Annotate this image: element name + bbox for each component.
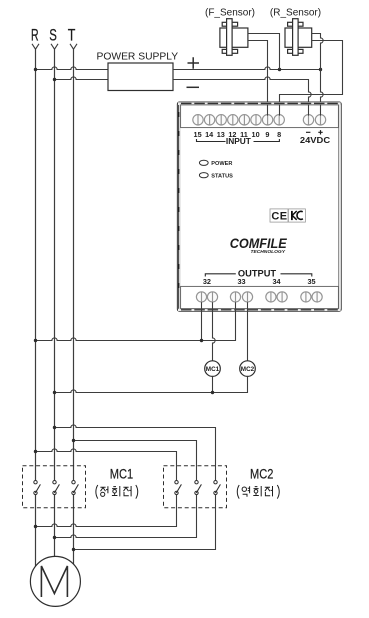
contact MC2-3 (214, 481, 221, 495)
LED POWER (199, 160, 208, 165)
wire coil MC1 to return row (212, 376, 214, 392)
wire stubs into terminals 9,8 and 24VDC (268, 104, 321, 115)
wire R_Sensor + lead to +24V rail and terminal plus (hops signal lead and signal run) (312, 34, 323, 117)
wire F_Sensor signal to input 9 (drops past rails) (248, 41, 268, 117)
KC mark (288, 209, 305, 222)
module bottom terminal strip (181, 286, 339, 308)
motor M (30, 556, 80, 606)
svg-text:10: 10 (252, 130, 260, 139)
power supply - output label (187, 86, 200, 88)
wire MC2 contact 3 out to T (74, 495, 216, 550)
svg-text:14: 14 (205, 130, 214, 139)
svg-text:STATUS: STATUS (211, 174, 233, 180)
svg-text:13: 13 (217, 130, 225, 139)
junction dot F_Sensor + on +24V rail (278, 68, 281, 71)
CE mark (270, 209, 288, 222)
wire S to power supply (hops T) (55, 77, 109, 80)
wire T to MC2 contact 2 (74, 441, 197, 481)
junction dot 32a on R feed row (200, 339, 203, 342)
junction dot MC2-1 out on R (34, 525, 37, 528)
svg-text:9: 9 (265, 130, 269, 139)
power supply + output label (188, 57, 200, 68)
junction dot return row on S (53, 391, 56, 394)
junction dot R_Sensor + on +24V rail (319, 68, 322, 71)
controller module U1 body (177, 102, 341, 311)
svg-text:INPUT: INPUT (226, 137, 251, 146)
MC2 Korean label (역회전) (237, 485, 279, 499)
contactor coil MC1 (205, 361, 221, 377)
svg-text:34: 34 (272, 277, 281, 286)
contact MC2-2 (195, 481, 202, 495)
svg-text:POWER: POWER (211, 161, 232, 167)
output terminal screws 32,33,34,35 pairs (196, 292, 322, 302)
OUTPUT group bracket (205, 274, 311, 277)
junction dot MC2-2 out on S (53, 536, 56, 539)
R supply entry fork (32, 44, 39, 49)
svg-text:MC2: MC2 (250, 466, 274, 482)
contactor MC2 enclosure (dashed) (164, 466, 227, 508)
svg-text:MC1: MC1 (206, 366, 220, 373)
svg-text:(F_Sensor): (F_Sensor) (205, 7, 255, 18)
contact MC1-1 (34, 481, 41, 495)
junction dot S / power supply feed (53, 78, 56, 81)
wire +24V rail (hops F_Sensor signal drop) (173, 67, 321, 70)
junction dot R / MC2 feed (34, 450, 37, 453)
svg-text:8: 8 (277, 130, 281, 139)
proximity sensor R_Sensor (285, 19, 312, 56)
contact MC1-2 (53, 481, 60, 495)
svg-text:MC2: MC2 (241, 366, 255, 373)
contactor coil MC2 (240, 361, 256, 377)
svg-text:TECHNOLOGY: TECHNOLOGY (250, 249, 285, 255)
svg-text:MC1: MC1 (110, 466, 134, 482)
module top terminal strip (181, 105, 339, 128)
phase line S (vertical bus) (54, 49, 56, 562)
wire R_Sensor signal to input 8 (280, 41, 343, 117)
input pin numbers 15..8 (194, 130, 282, 139)
phase line R (vertical bus) (35, 49, 37, 570)
wire output 33b to coil MC2 (247, 302, 249, 361)
output pin numbers 32..35 (203, 277, 316, 286)
wire output 32a to R feed row (201, 302, 203, 340)
svg-text:24VDC: 24VDC (300, 136, 331, 145)
MC1 Korean label (정회전) (96, 485, 138, 499)
input terminal screws 15..8 (193, 115, 285, 125)
svg-text:POWER SUPPLY: POWER SUPPLY (96, 51, 178, 62)
junction dot T / MC2 feed (72, 439, 75, 442)
junction dot MC2-3 out on T (72, 548, 75, 551)
24VDC terminal screws - + (303, 115, 325, 125)
svg-text:(R_Sensor): (R_Sensor) (270, 7, 321, 18)
svg-text:33: 33 (237, 277, 245, 286)
svg-text:35: 35 (307, 277, 315, 286)
wire R to power supply (hops S,T) (36, 67, 109, 70)
svg-text:S: S (49, 26, 57, 44)
phase line T (vertical bus) (73, 49, 75, 570)
wire R to MC2 contact 1 (hops S,T) (36, 449, 177, 481)
svg-text:CE: CE (271, 211, 287, 223)
contact MC1-3 (72, 481, 79, 495)
wire output 32b to coil MC1 (hops R feed row) (213, 302, 216, 361)
wire MC2 contact 1 out to R (hops S,T) (36, 495, 177, 527)
INPUT group bracket (197, 139, 280, 142)
contactor MC1 enclosure (dashed) (23, 466, 86, 508)
wire coil MC2 to S return row (hops T) (55, 376, 248, 392)
proximity sensor F_Sensor (220, 19, 248, 56)
wire R feed row to output 33a (hops S,T and MC1 coil drop) (36, 302, 236, 340)
junction dot S / MC2 feed (53, 426, 56, 429)
wire F_Sensor + lead to +24V rail (248, 34, 280, 70)
svg-text:T: T (68, 26, 76, 44)
S supply entry fork (51, 44, 58, 49)
wire 0V rail to terminal minus (hops F_Sensor signal drop, hops over sensor signal run) (173, 77, 311, 116)
svg-text:32: 32 (203, 277, 211, 286)
T supply entry fork (70, 44, 77, 49)
LED STATUS (199, 173, 208, 178)
wire S to MC2 contact 3 (hops T) (55, 425, 216, 481)
contact MC2-1 (175, 481, 182, 495)
24VDC polarity marks (306, 130, 323, 134)
junction dot R / power supply feed (34, 68, 37, 71)
junction dot R feed row on R (34, 339, 37, 342)
svg-text:R: R (31, 26, 39, 44)
wire MC2 contact 2 out to S (hops T) (55, 495, 197, 538)
svg-text:15: 15 (194, 130, 202, 139)
svg-text:COMFILE: COMFILE (230, 236, 288, 251)
junction dot MC1 on return row (211, 391, 214, 394)
